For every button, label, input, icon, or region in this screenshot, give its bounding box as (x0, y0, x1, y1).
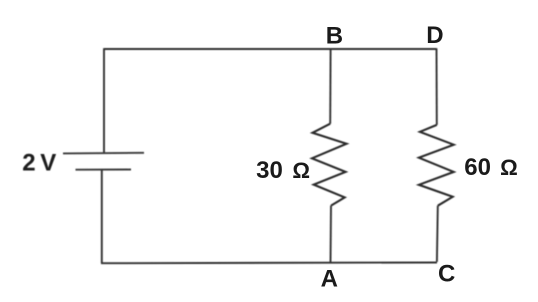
svg-text:V: V (40, 149, 56, 176)
wire bottom (node A/C rail) (101, 262, 437, 265)
wire node B to resistor R1 top (329, 49, 331, 124)
resistor R2 60 ohm zigzag (419, 125, 454, 206)
svg-text:A: A (321, 266, 338, 293)
svg-text:C: C (438, 261, 455, 288)
resistor R1 30 ohm zigzag (312, 124, 347, 206)
svg-text:Ω: Ω (500, 155, 518, 180)
battery value label 2 V (22, 149, 56, 176)
svg-text:B: B (326, 22, 343, 49)
wire left upper (battery + to top rail) (103, 48, 105, 153)
svg-text:D: D (426, 22, 443, 49)
node B label (326, 22, 343, 49)
wire top (node B/D rail) (104, 48, 437, 50)
battery B1 2V negative plate (76, 169, 132, 171)
node D label (426, 22, 443, 49)
wire left lower (battery - to bottom rail) (101, 170, 103, 264)
wire resistor R2 bottom to node C (436, 206, 439, 262)
svg-text:60: 60 (464, 154, 491, 181)
node A label (321, 266, 338, 293)
resistor R2 value label 60 ohm (464, 154, 517, 181)
svg-text:2: 2 (22, 149, 35, 176)
wire node D to resistor R2 top (436, 48, 438, 125)
battery B1 2V positive plate (63, 152, 144, 155)
resistor R1 value label 30 ohm (256, 157, 310, 184)
svg-text:30: 30 (256, 157, 283, 184)
node C label (438, 261, 455, 288)
wire resistor R1 bottom to node A (330, 206, 333, 263)
svg-text:Ω: Ω (292, 158, 310, 183)
